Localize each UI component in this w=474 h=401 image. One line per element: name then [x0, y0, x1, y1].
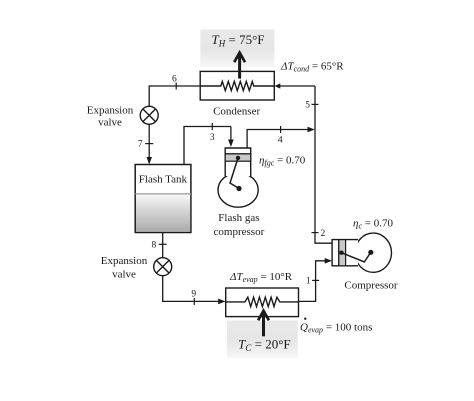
piston pin dot [236, 156, 240, 160]
node 7 tick [145, 143, 153, 145]
cold reservoir box T_C [227, 320, 298, 358]
evaporator box [226, 288, 299, 317]
wire condenser inlet (from node 5 line) with arrow into right side [280, 85, 316, 87]
crankcase circle [218, 173, 258, 207]
cylinder head line [338, 240, 340, 266]
svg-text:Expansion: Expansion [101, 255, 148, 267]
svg-text:8: 8 [152, 240, 157, 250]
node 9 tick [193, 298, 195, 305]
heat arrow Q_cond (condenser to T_H) [234, 53, 245, 79]
node 2 tick [312, 232, 319, 234]
expansion valve 1 [140, 106, 158, 124]
svg-text:4: 4 [278, 135, 283, 145]
wire fgc outlet to node 4 and main line [247, 130, 308, 149]
svg-text:ΔTevap = 10°R: ΔTevap = 10°R [229, 271, 293, 284]
svg-text:9: 9 [191, 290, 196, 300]
svg-text:ΔTcond = 65°R: ΔTcond = 65°R [280, 60, 344, 73]
main discharge line: compressor outlet up to condenser [315, 86, 333, 243]
svg-text:2: 2 [321, 229, 326, 239]
compressor U-c [332, 233, 391, 272]
svg-text:6: 6 [172, 74, 177, 84]
label Q_evap = 100 tons [304, 318, 306, 320]
hot reservoir box T_H [200, 30, 274, 67]
cylinder head line [225, 153, 251, 155]
wire flash tank liquid out to valve 2 [162, 233, 164, 258]
piston [339, 240, 346, 266]
svg-text:Compressor: Compressor [344, 279, 398, 291]
svg-text:Flash Tank: Flash Tank [139, 173, 188, 185]
node 3 tick [211, 123, 213, 130]
wire flash tank vapor out to node 3 [184, 127, 231, 165]
evaporator zigzag coil [226, 297, 299, 306]
cylinder [332, 240, 358, 266]
node 5 tick [312, 103, 319, 105]
condenser zigzag coil [200, 81, 274, 90]
node 4 tick [280, 126, 282, 133]
svg-text:3: 3 [210, 133, 215, 143]
svg-text:compressor: compressor [214, 226, 265, 238]
condenser box [200, 71, 274, 100]
heat arrow Q_evap (T_C into evaporator) [258, 311, 269, 337]
svg-text:7: 7 [138, 140, 143, 150]
connecting rod [342, 252, 371, 262]
wire condenser outlet to expansion valve (left, then down) [149, 86, 200, 106]
cylinder [225, 148, 251, 176]
wire valve 1 to flash tank with arrow [148, 124, 150, 158]
piston pin dot [339, 251, 343, 255]
svg-text:1: 1 [306, 277, 311, 287]
connecting rod [230, 158, 239, 189]
svg-text:Condenser: Condenser [213, 105, 260, 117]
piston [225, 154, 251, 161]
flash tank [135, 165, 191, 233]
svg-text:Expansion: Expansion [87, 105, 134, 117]
wire valve 2 to evaporator with arrow [163, 276, 219, 302]
svg-text:valve: valve [112, 269, 136, 281]
crank dot [368, 250, 373, 255]
suction line: evaporator to compressor inlet [299, 261, 327, 302]
svg-text:valve: valve [98, 116, 122, 128]
expansion valve 2 [154, 258, 172, 276]
flash gas compressor U-fgc [218, 148, 258, 207]
node 1 tick [312, 279, 319, 281]
svg-text:5: 5 [305, 101, 310, 111]
node 8 tick [159, 243, 167, 245]
wire into flash gas compressor with arrow [230, 127, 232, 141]
crankcase circle [355, 233, 392, 272]
svg-text:Flash gas: Flash gas [218, 212, 259, 224]
node 6 tick [175, 83, 177, 90]
crank dot [236, 186, 241, 191]
